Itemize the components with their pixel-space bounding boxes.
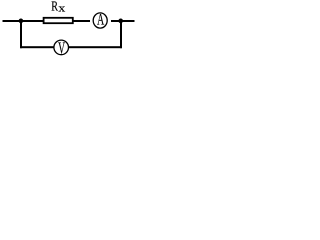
wire W4: ammeter to right junction and right end (111, 20, 135, 22)
wire W5: right vertical drop (120, 20, 122, 48)
resistor Rx box (44, 18, 73, 23)
wire W2: left vertical drop (20, 20, 22, 48)
wire W7: voltmeter to bottom-right corner (69, 46, 122, 48)
node J1: left junction dot (19, 19, 24, 24)
svg-text:V: V (58, 40, 65, 59)
wire W3: resistor to ammeter (73, 20, 90, 22)
wire W1: top-left horizontal segment (3, 20, 44, 22)
ammeter A: circle (93, 13, 107, 28)
svg-text:A: A (97, 10, 105, 28)
svg-text:x: x (58, 2, 65, 14)
wire W6: bottom-left horizontal to voltmeter (20, 46, 54, 48)
node J2: right junction dot (118, 19, 123, 24)
voltmeter V: circle (54, 40, 69, 55)
